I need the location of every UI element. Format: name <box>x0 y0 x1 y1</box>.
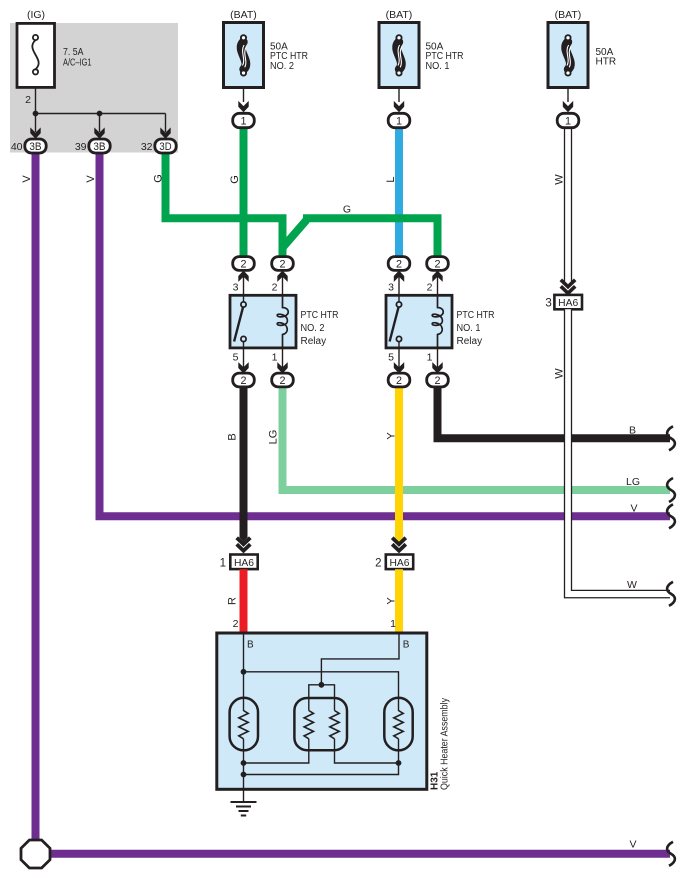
arrow into pin 1 NO.1 <box>394 101 404 112</box>
wire W lower outlines <box>565 309 671 597</box>
connector 3 HA6 <box>554 295 582 309</box>
relay PTC HTR NO.1 pin 2 connector 2 <box>427 257 449 271</box>
junction dot bottom left lower <box>241 772 247 778</box>
svg-text:5: 5 <box>388 352 394 364</box>
wire middle-right resistor to bottom <box>335 739 399 763</box>
svg-text:2: 2 <box>240 258 246 270</box>
wire stub to 39 <box>99 114 101 133</box>
chevron arrow into 1 HA6 <box>237 538 251 551</box>
svg-text:G: G <box>343 204 351 216</box>
svg-text:R: R <box>227 597 239 605</box>
wire G from 32/3D to relay NO.2 pin 2 <box>166 150 283 257</box>
svg-text:2: 2 <box>240 375 246 387</box>
junction dot heater left <box>241 669 247 675</box>
junction dot bottom left upper <box>241 760 247 766</box>
svg-text:2: 2 <box>272 282 278 294</box>
svg-text:B: B <box>403 639 410 650</box>
svg-text:W: W <box>554 368 566 379</box>
svg-text:2: 2 <box>279 375 285 387</box>
svg-text:L: L <box>385 176 397 182</box>
svg-text:40: 40 <box>11 141 23 153</box>
connector 2 HA6 <box>386 555 413 570</box>
break symbol B <box>667 426 675 450</box>
svg-text:HA6: HA6 <box>558 298 578 309</box>
arrow into pin 40 <box>30 127 40 138</box>
svg-text:1: 1 <box>240 115 246 127</box>
junction block (gray) <box>10 23 178 153</box>
wire L from fuse PTC HTR NO.1 <box>395 127 403 258</box>
relay NO.1 coil <box>432 295 443 348</box>
svg-text:2: 2 <box>427 282 433 294</box>
chevron arrow into 3 HA6 <box>561 280 575 293</box>
svg-text:3: 3 <box>233 282 239 294</box>
wire W lower white fill <box>568 309 670 594</box>
break symbol V right <box>667 504 675 528</box>
wire right element to bottom <box>398 739 400 763</box>
arrow down pin 5 NO.2 <box>243 348 245 371</box>
svg-text:PTC HTR: PTC HTR <box>457 310 495 321</box>
svg-text:B: B <box>247 639 254 650</box>
wire fuse NO.1 to pin 1 <box>398 88 400 103</box>
arrow into pin 1 HTR <box>563 101 573 112</box>
wire Y from relay NO.1 pin 5 to HA6 <box>395 383 403 538</box>
wire G from fuse PTC HTR NO.2 <box>240 127 248 257</box>
wire R from 1 HA6 to heater pin 2 <box>240 569 248 633</box>
svg-text:32: 32 <box>141 141 153 153</box>
wire G diagonal branch <box>284 220 307 247</box>
wire LG from relay NO.2 pin 1 to right edge <box>283 383 671 490</box>
junction dot A <box>33 111 39 117</box>
svg-text:2: 2 <box>279 258 285 270</box>
arrow into pin 32 <box>160 127 170 138</box>
arrow into pin 1 NO.2 <box>238 101 248 112</box>
svg-text:(BAT): (BAT) <box>230 9 257 21</box>
svg-text:2: 2 <box>396 258 402 270</box>
relay NO.2 pin 5 connector 2 <box>233 373 255 387</box>
junction dot B <box>97 111 103 117</box>
pin 1 connector fuse NO.2 <box>233 113 255 127</box>
splice octagon <box>21 840 50 868</box>
svg-text:HTR: HTR <box>596 57 617 68</box>
wire B from relay NO.1 pin 1 to right edge <box>438 383 671 438</box>
wire junction horizontal <box>36 113 166 115</box>
svg-text:1: 1 <box>565 115 571 127</box>
wire stub to 40 <box>35 114 37 133</box>
arrow into pin 39 <box>94 127 104 138</box>
heater element right <box>384 698 412 751</box>
svg-text:V: V <box>21 175 33 183</box>
pin 1 connector fuse HTR <box>557 113 579 127</box>
svg-text:LG: LG <box>268 430 280 445</box>
svg-text:2: 2 <box>396 375 402 387</box>
svg-text:3D: 3D <box>159 141 171 153</box>
fuse A/C-IG1 box <box>17 23 55 87</box>
arrow down pin 1 NO.2 <box>282 348 284 371</box>
svg-text:A/C–IG1: A/C–IG1 <box>63 58 92 69</box>
wire fuse HTR to pin 1 <box>567 88 569 103</box>
pin 32 connector 3D <box>155 139 176 153</box>
svg-text:3B: 3B <box>29 141 41 153</box>
svg-text:B: B <box>227 433 239 440</box>
wire stub to 32 <box>165 114 167 133</box>
relay NO.1 pin 1 connector 2 <box>427 373 449 387</box>
pin 1 connector fuse NO.1 <box>388 113 410 127</box>
svg-text:2: 2 <box>434 375 440 387</box>
svg-text:3B: 3B <box>93 141 105 153</box>
svg-text:NO. 2: NO. 2 <box>301 323 325 334</box>
svg-text:39: 39 <box>75 141 87 153</box>
wire heater pin 2 internal <box>243 633 245 711</box>
svg-text:2: 2 <box>375 557 381 569</box>
svg-text:V: V <box>629 839 636 851</box>
wire heater pin 1 internal elbow <box>321 633 399 685</box>
junction dot bottom right <box>396 760 402 766</box>
relay NO.1 pin 5 connector 2 <box>388 373 410 387</box>
fuse 50A HTR box <box>548 23 588 88</box>
arrow up pin 3 NO.2 <box>243 272 245 295</box>
svg-text:1: 1 <box>427 352 433 364</box>
relay NO.2 coil <box>277 295 288 348</box>
wire fuse NO.2 to pin 1 <box>243 88 245 103</box>
svg-text:3: 3 <box>545 297 551 309</box>
relay PTC HTR NO.2 pin 3 connector 2 <box>233 257 255 271</box>
svg-text:2: 2 <box>233 618 239 630</box>
svg-text:1: 1 <box>390 618 396 630</box>
svg-text:2: 2 <box>434 258 440 270</box>
wire V bottom horizontal from splice to right <box>49 850 670 858</box>
svg-text:(BAT): (BAT) <box>555 9 582 21</box>
heater element middle (double) <box>294 698 347 750</box>
svg-text:LG: LG <box>626 476 640 488</box>
wire bridge middle element <box>309 685 335 698</box>
svg-text:5: 5 <box>233 352 239 364</box>
fusible link element NO.1 <box>397 42 402 69</box>
svg-text:PTC HTR: PTC HTR <box>301 310 339 321</box>
wire bottom return <box>244 763 399 775</box>
svg-text:G: G <box>229 175 241 184</box>
svg-text:1: 1 <box>396 115 402 127</box>
break symbol bottom V <box>667 842 675 866</box>
quick heater assembly H31 box <box>217 633 427 789</box>
arrow down pin 1 NO.1 <box>437 348 439 371</box>
svg-text:Quick Heater Assembly: Quick Heater Assembly <box>440 698 451 790</box>
relay NO.2 switch <box>243 295 245 302</box>
svg-text:V: V <box>85 175 97 183</box>
wire W upper segment <box>564 127 566 282</box>
svg-text:V: V <box>630 503 637 515</box>
svg-text:W: W <box>554 174 566 185</box>
fusible link element NO.2 <box>241 42 246 69</box>
chevron arrow into 2 HA6 <box>392 538 406 551</box>
wire V from 40 down to splice octagon <box>32 150 40 841</box>
fuse 50A PTC HTR NO.1 box <box>379 23 419 88</box>
svg-text:NO. 1: NO. 1 <box>457 323 481 334</box>
break symbol W <box>667 582 675 606</box>
svg-text:HA6: HA6 <box>234 558 254 569</box>
arrow down pin 5 NO.1 <box>398 348 400 371</box>
wire internal horizontal to right element <box>244 672 399 711</box>
svg-text:2: 2 <box>25 94 31 106</box>
wire V from 39 to right edge <box>100 150 671 516</box>
svg-text:NO. 2: NO. 2 <box>270 61 294 72</box>
pin 40 connector 3B <box>25 139 46 153</box>
wire middle-left resistor to bottom <box>244 739 309 763</box>
svg-text:G: G <box>153 174 165 183</box>
wire G upper horizontal to relay NO.1 pin 2 <box>303 218 438 257</box>
break symbol LG <box>667 478 675 502</box>
svg-text:Y: Y <box>386 432 398 440</box>
wire B from relay NO.2 pin 5 to HA6 <box>240 383 248 538</box>
fuse element A/C-IG1 <box>32 40 38 69</box>
relay PTC HTR NO.2 box <box>230 295 296 348</box>
wire from fuse A/C-IG1 to junction <box>35 88 37 114</box>
relay NO.1 switch <box>398 295 400 302</box>
svg-text:3: 3 <box>388 282 394 294</box>
relay PTC HTR NO.1 pin 3 connector 2 <box>388 257 410 271</box>
svg-text:7. 5A: 7. 5A <box>63 47 84 58</box>
arrow up pin 2 NO.2 <box>282 272 284 295</box>
wire Y from 2 HA6 to heater pin 1 <box>395 569 403 633</box>
svg-text:W: W <box>627 579 637 591</box>
fuse 50A PTC HTR NO.2 box <box>224 23 264 88</box>
junction dot heater middle <box>319 682 325 688</box>
svg-text:HA6: HA6 <box>390 558 410 569</box>
pin 39 connector 3B <box>89 139 110 153</box>
relay PTC HTR NO.2 pin 2 connector 2 <box>272 257 294 271</box>
svg-text:Y: Y <box>386 597 398 605</box>
svg-text:1: 1 <box>220 557 226 569</box>
relay NO.2 pin 1 connector 2 <box>272 373 294 387</box>
svg-text:B: B <box>629 425 636 437</box>
fusible link element HTR <box>566 42 571 69</box>
relay PTC HTR NO.1 box <box>386 295 452 348</box>
svg-text:1: 1 <box>272 352 278 364</box>
svg-text:Relay: Relay <box>301 336 327 347</box>
svg-text:(IG): (IG) <box>27 9 45 21</box>
heater element left <box>230 698 258 751</box>
ground <box>243 789 245 802</box>
arrow up pin 3 NO.1 <box>398 272 400 295</box>
connector 1 HA6 <box>230 555 257 570</box>
wire left element bottom <box>243 739 245 790</box>
svg-text:NO. 1: NO. 1 <box>426 61 450 72</box>
svg-text:Relay: Relay <box>457 336 483 347</box>
svg-text:(BAT): (BAT) <box>386 9 413 21</box>
arrow up pin 2 NO.1 <box>437 272 439 295</box>
